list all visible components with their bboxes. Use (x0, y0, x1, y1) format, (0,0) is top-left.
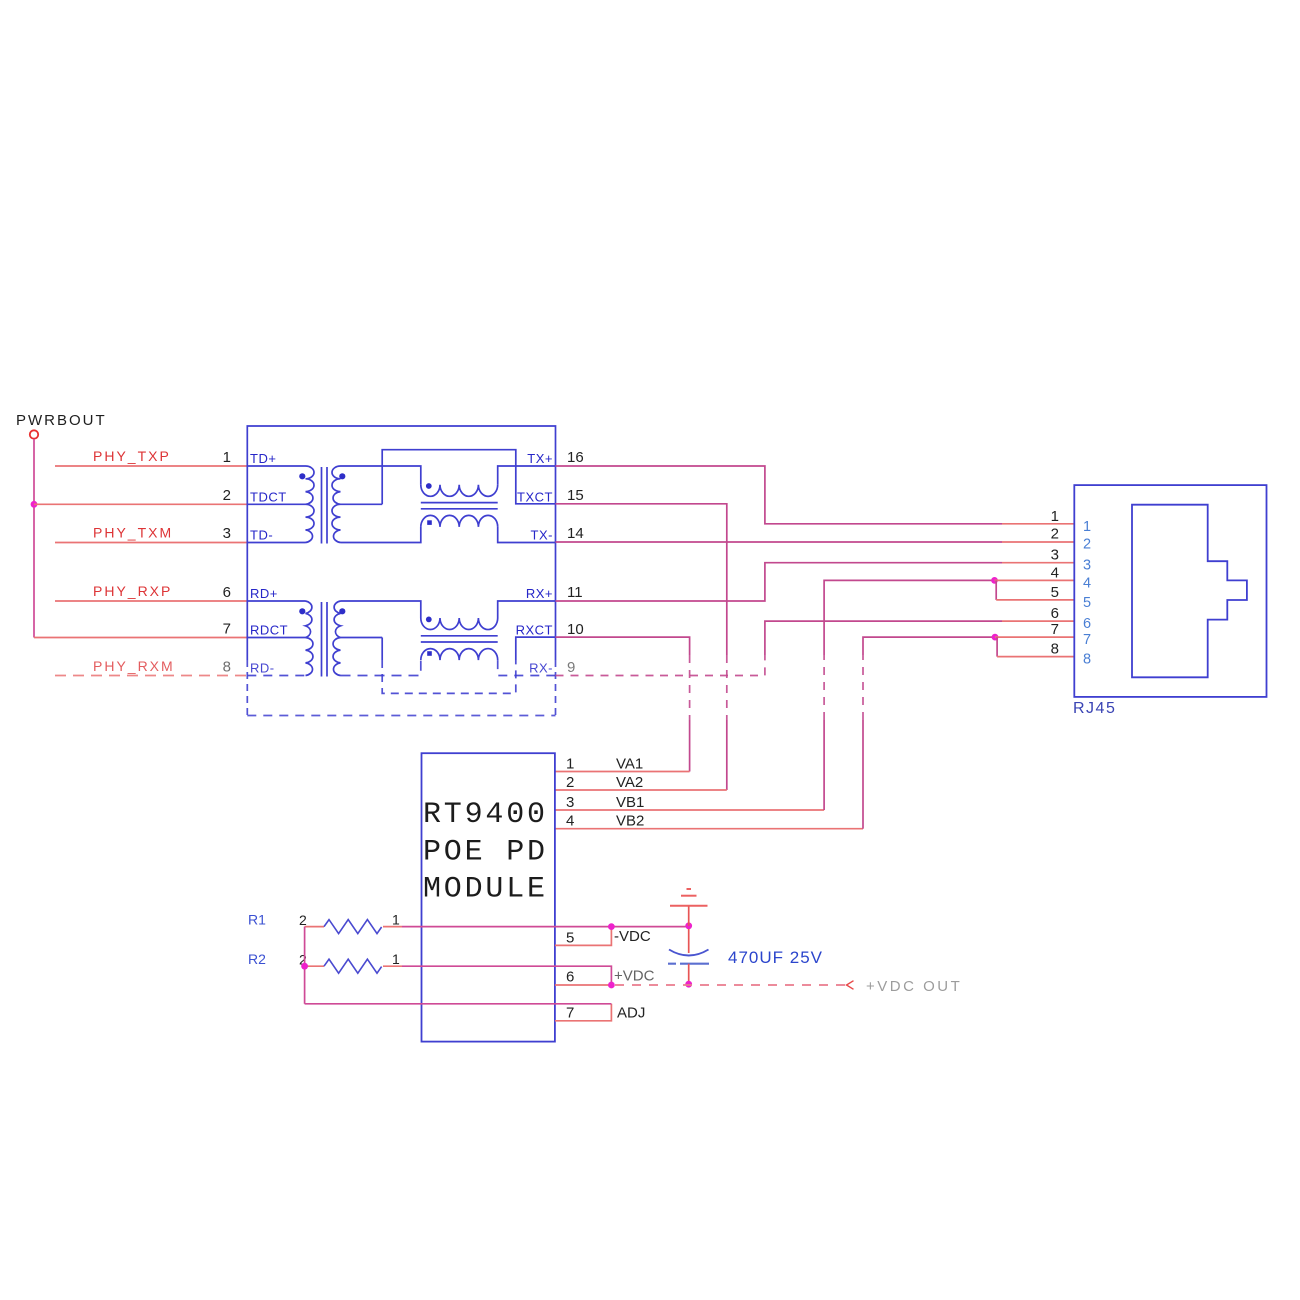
svg-text:14: 14 (567, 525, 584, 542)
transformer T1 primary winding (top) (306, 466, 315, 543)
polarity dot L1 top winding (426, 483, 432, 489)
svg-text:POE PD: POE PD (423, 836, 548, 870)
wire net RT9400 VB1 to RJ45 pin4 (vertical faded in band) (555, 809, 824, 811)
svg-text:1: 1 (1083, 519, 1091, 535)
wire ADJ net: R1/R2 left vertical (304, 927, 306, 1004)
svg-text:4: 4 (1083, 575, 1091, 591)
U1 pin 6 stub (555, 984, 612, 986)
wire RD+ inside stub (247, 600, 305, 602)
svg-text:10: 10 (567, 621, 584, 638)
svg-text:5: 5 (1051, 584, 1059, 601)
svg-text:VA2: VA2 (616, 774, 643, 791)
wire secondary bottom to choke (bottom, faded) (341, 660, 421, 675)
svg-text:8: 8 (1051, 641, 1059, 658)
wire stub RJ45 pin8 (997, 656, 1074, 658)
svg-text:7: 7 (566, 1005, 574, 1022)
wire net RX- pin9 to RJ45 pin6 (partially faded) (556, 675, 661, 677)
svg-text:RX-: RX- (529, 661, 553, 676)
svg-text:6: 6 (1051, 605, 1059, 622)
svg-text:RD-: RD- (250, 661, 275, 676)
svg-text:1: 1 (223, 449, 231, 466)
svg-text:3: 3 (1051, 547, 1059, 564)
wire -VDC net R1 to pin5 and cap/gnd (383, 926, 402, 928)
choke L2 core (421, 636, 498, 642)
svg-text:R2: R2 (248, 951, 266, 967)
svg-text:VA1: VA1 (616, 756, 643, 773)
ground symbol middle dash (681, 895, 697, 897)
resistor R1 zigzag (324, 920, 382, 934)
wire secondary top to choke (top) (341, 466, 421, 485)
wire TXCT jumper over choke (382, 450, 555, 505)
transformer T2 secondary winding (bottom) (333, 601, 340, 676)
wire net TXCT pin15 to RT9400 VA2 (vertical faded in band) (556, 504, 727, 655)
svg-text:RT9400: RT9400 (423, 798, 548, 832)
capacitor C1 straight plate (668, 963, 709, 965)
transformer T1 core (top) (322, 467, 328, 544)
svg-text:6: 6 (1083, 616, 1091, 632)
transformer T2 core (bottom) (322, 602, 328, 677)
junction dot PWRBOUT to TDCT (31, 501, 38, 508)
svg-text:4: 4 (1051, 564, 1059, 581)
svg-text:PHY_TXP: PHY_TXP (93, 448, 171, 464)
polarity dot L2 top winding (426, 617, 432, 623)
wire RD- inside stub (faded dashed) (247, 675, 305, 677)
wire RXCT jumper under choke (faded dashed) (381, 638, 383, 661)
svg-text:2: 2 (1051, 526, 1059, 543)
wire stub RJ45 pin6 (1002, 620, 1074, 622)
svg-text:3: 3 (223, 525, 231, 542)
svg-text:TDCT: TDCT (250, 490, 287, 505)
svg-text:6: 6 (223, 584, 231, 601)
wire choke L2 top right to RX+ pin 11 (498, 601, 556, 618)
svg-text:9: 9 (567, 659, 575, 676)
U1 pin 5 stub (555, 927, 612, 946)
ground symbol wide bar (670, 905, 708, 907)
wire PHY_TXM row (55, 542, 247, 544)
svg-text:1: 1 (1051, 508, 1059, 525)
svg-text:TX+: TX+ (527, 451, 553, 466)
polarity square L1 bottom winding (427, 520, 432, 525)
wire stub RJ45 pin7 (995, 636, 1074, 638)
svg-text:2: 2 (299, 912, 307, 928)
wire stub RJ45 pin2 (1002, 541, 1074, 543)
U1 pin 7 stub (555, 1004, 612, 1021)
svg-text:RJ45: RJ45 (1073, 700, 1116, 717)
svg-text:TXCT: TXCT (517, 490, 553, 505)
svg-text:TX-: TX- (531, 528, 553, 543)
wire net RXCT pin10 to RT9400 VA1 (vertical faded in band) (556, 637, 690, 655)
svg-text:8: 8 (1083, 652, 1091, 668)
wire net RT9400 VB2 to RJ45 pin7 (vertical faded in band) (555, 828, 863, 830)
svg-text:ADJ: ADJ (617, 1005, 645, 1022)
svg-text:VB1: VB1 (616, 794, 644, 811)
svg-text:4: 4 (566, 813, 574, 830)
wire PWRBOUT vertical bus (33, 439, 35, 638)
wire PHY_TXP row (55, 465, 247, 467)
ground lead to -VDC node (688, 907, 690, 926)
wire R1 left stub (305, 926, 324, 928)
wire secondary center tap (bottom) (341, 637, 383, 639)
wire choke L1 bottom right to TX- pin 14 (498, 527, 556, 543)
svg-text:6: 6 (566, 969, 574, 986)
svg-text:16: 16 (567, 449, 584, 466)
polarity square L2 bottom winding (427, 651, 432, 656)
wire TD- inside stub (247, 542, 305, 544)
svg-text:470UF 25V: 470UF 25V (728, 948, 823, 967)
wire net TX- pin14 to RJ45 pin2 (556, 541, 1003, 543)
svg-text:R1: R1 (248, 912, 266, 928)
wire choke L1 top right to TX+ pin 16 (498, 466, 556, 485)
wire RDCT row (34, 637, 247, 639)
svg-text:2: 2 (566, 774, 574, 791)
svg-text:3: 3 (1083, 558, 1091, 574)
choke L1 bottom winding (421, 515, 498, 527)
svg-text:1: 1 (392, 912, 400, 928)
svg-text:5: 5 (566, 930, 574, 947)
svg-text:7: 7 (1083, 632, 1091, 648)
wire R2 left stub (305, 965, 324, 967)
wire R2 net to pin6 (383, 965, 402, 967)
junction dot -VDC at pin5 bracket (608, 923, 615, 930)
svg-text:3: 3 (566, 794, 574, 811)
wire stub RJ45 pin4 (995, 579, 1075, 581)
wire TDCT row (34, 503, 247, 505)
wire stub RJ45 pin3 (1002, 562, 1074, 564)
wire ADJ net horizontal to pin7 (305, 1003, 612, 1005)
transformer T1 box outline (bottom edge faded dashed) (247, 426, 555, 660)
junction dot +VDC at pin6 (608, 982, 615, 989)
polarity dot T2 primary (299, 608, 305, 614)
junction dot -VDC at capacitor top (685, 922, 692, 929)
junction dot VB2 at RJ45 pin7 (992, 634, 999, 641)
svg-text:7: 7 (223, 621, 231, 638)
wire secondary center tap (top) (341, 503, 383, 505)
node PWRBOUT terminal circle (30, 430, 38, 438)
wire branch pin7 to pin8 (996, 637, 998, 657)
svg-text:RDCT: RDCT (250, 623, 288, 638)
connector J1 RJ45 jack profile (1132, 505, 1247, 678)
wire TD+ inside stub (247, 465, 305, 467)
wire PHY_RXM row (faded dashed) (55, 675, 247, 677)
wire RDCT inside stub (247, 637, 305, 639)
svg-text:PWRBOUT: PWRBOUT (16, 412, 107, 429)
capacitor C1 bottom lead (688, 964, 690, 982)
junction dot +VDC at capacitor bottom (685, 981, 692, 988)
wire stub RJ45 pin1 (1002, 523, 1074, 525)
connector J1 RJ45 outer box (1074, 485, 1266, 697)
svg-text:8: 8 (223, 659, 231, 676)
svg-text:TD+: TD+ (250, 451, 276, 466)
transformer T2 primary winding (bottom) (306, 601, 313, 676)
capacitor C1 curved plate (669, 950, 709, 956)
ground symbol (inverted earth) top dash (687, 888, 692, 890)
wire PHY_RXP row (55, 600, 247, 602)
wire net RX+ pin11 to RJ45 pin3 (556, 563, 1003, 601)
capacitor C1 top lead (688, 929, 690, 953)
svg-text:TD-: TD- (250, 528, 273, 543)
transformer T1 secondary winding (top) (332, 466, 341, 543)
resistor R2 zigzag (324, 959, 382, 973)
svg-text:7: 7 (1051, 621, 1059, 638)
wire +VDC OUT dashed net (615, 984, 845, 986)
svg-text:MODULE: MODULE (423, 873, 548, 907)
arrowhead of +VDC OUT (847, 981, 854, 990)
svg-text:PHY_RXP: PHY_RXP (93, 583, 172, 599)
wire TDCT inside stub (247, 503, 305, 505)
svg-text:-VDC: -VDC (614, 928, 651, 945)
wire stub RJ45 pin5 (996, 599, 1074, 601)
choke L1 top winding (421, 485, 498, 497)
IC U1 RT9400 module box (422, 753, 555, 1041)
svg-text:11: 11 (567, 584, 583, 601)
svg-text:PHY_TXM: PHY_TXM (93, 525, 173, 541)
svg-text:+VDC OUT: +VDC OUT (866, 978, 962, 995)
junction dot R2 left (301, 963, 308, 970)
svg-text:5: 5 (1083, 595, 1091, 611)
choke L1 core (421, 503, 498, 509)
svg-text:2: 2 (1083, 537, 1091, 553)
svg-text:15: 15 (567, 487, 584, 504)
wire secondary top to choke (bottom) (341, 601, 421, 618)
choke L2 top winding (421, 618, 498, 630)
svg-text:+VDC: +VDC (614, 968, 655, 985)
choke L2 bottom winding (421, 649, 498, 661)
wire branch pin4 to pin5 (995, 580, 997, 600)
junction dot VB1 at RJ45 pin4 (991, 577, 998, 584)
wire choke L2 bottom right to RX- pin 9 (faded dashed) (498, 660, 556, 675)
wire net TX+ pin16 to RJ45 pin1 (556, 466, 1003, 524)
svg-text:RX+: RX+ (526, 586, 553, 601)
svg-text:RXCT: RXCT (516, 623, 553, 638)
polarity dot T2 secondary (339, 608, 345, 614)
svg-text:VB2: VB2 (616, 813, 644, 830)
polarity dot T1 secondary (339, 473, 345, 479)
wire secondary bottom to choke (top) (341, 527, 421, 543)
svg-text:2: 2 (223, 487, 231, 504)
svg-text:1: 1 (392, 951, 400, 967)
svg-text:1: 1 (566, 756, 574, 773)
polarity dot T1 primary (299, 473, 305, 479)
svg-text:RD+: RD+ (250, 586, 278, 601)
svg-text:PHY_RXM: PHY_RXM (93, 658, 175, 674)
